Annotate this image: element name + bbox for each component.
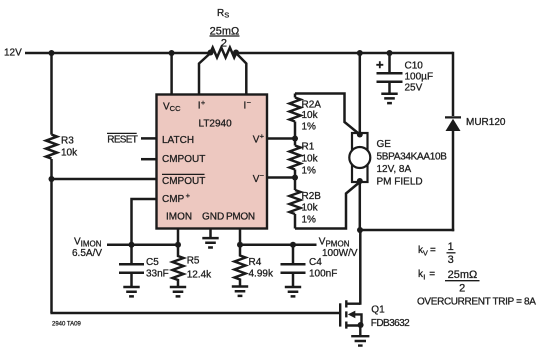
- svg-text:=: =: [430, 245, 436, 256]
- junction dot: PMON / R4: [237, 242, 243, 248]
- svg-text:100W/V: 100W/V: [322, 248, 358, 259]
- svg-text:+: +: [186, 191, 191, 200]
- transistor Q1 FDB3632: [340, 300, 361, 335]
- resistor R2A: [290, 98, 301, 122]
- svg-text:PMON: PMON: [226, 212, 255, 223]
- svg-text:PM FIELD: PM FIELD: [377, 177, 423, 188]
- wire: CMP+ down to IMON line: [132, 199, 158, 245]
- junction dot: V+ string: [292, 136, 298, 142]
- wire: V+ pin to string: [266, 137, 295, 140]
- svg-text:=: =: [429, 269, 435, 280]
- wire: V- pin to string: [266, 176, 295, 179]
- ground (R5): [170, 287, 186, 296]
- wire: CMPOUT stub: [141, 158, 157, 161]
- resistor R2B: [290, 190, 301, 214]
- wire: VPMON horizontal line: [240, 243, 317, 246]
- wire: C10 branch from rail: [388, 53, 391, 72]
- svg-text:GE: GE: [377, 139, 392, 150]
- capacitor C5: [119, 245, 144, 286]
- wire: diode anode down to drain node: [452, 130, 455, 231]
- resistor R4: [235, 245, 246, 286]
- wire: motor branch from rail: [359, 53, 362, 134]
- wire: string top to motor top: [295, 94, 360, 135]
- transistor Q1 body arrow: [348, 311, 356, 319]
- ground (C10): [381, 94, 397, 103]
- svg-text:1%: 1%: [302, 215, 317, 226]
- svg-text:100nF: 100nF: [309, 269, 337, 280]
- svg-text:5BPA34KAA10B: 5BPA34KAA10B: [377, 152, 448, 163]
- ground (R4): [232, 287, 248, 296]
- svg-text:MUR120: MUR120: [466, 117, 506, 128]
- diode MUR120: [445, 116, 461, 131]
- ground (IC GND pin): [202, 238, 218, 247]
- svg-text:−: −: [260, 171, 265, 180]
- capacitor C10: [377, 73, 403, 92]
- ground (C4): [285, 287, 301, 296]
- svg-text:6.5A/V: 6.5A/V: [72, 248, 102, 259]
- svg-text:R2A: R2A: [302, 99, 322, 110]
- svg-text:1%: 1%: [302, 122, 317, 133]
- wire: GND pin down: [209, 228, 212, 237]
- junction dot: C4: [290, 242, 296, 248]
- svg-text:10k: 10k: [302, 154, 319, 165]
- wire: PMON pin down: [239, 228, 242, 245]
- svg-text:CMPOUT: CMPOUT: [162, 154, 205, 165]
- wire: RS right to I- pin: [236, 53, 246, 95]
- IC U1 LT2940 body: [157, 95, 268, 229]
- junction dot: VCC: [169, 50, 175, 56]
- svg-text:C10: C10: [405, 61, 424, 72]
- capacitor C4: [281, 245, 306, 286]
- wire: resistor string vertical: [294, 94, 297, 229]
- svg-text:33nF: 33nF: [146, 269, 169, 280]
- svg-text:4.99k: 4.99k: [249, 269, 274, 280]
- svg-text:R3: R3: [61, 136, 74, 147]
- svg-text:OVERCURRENT TRIP = 8A: OVERCURRENT TRIP = 8A: [417, 296, 536, 307]
- resistor R1: [290, 146, 301, 170]
- wire: CMPOUT-bar to left vertical: [52, 178, 158, 181]
- svg-text:12V, 8A: 12V, 8A: [377, 164, 412, 175]
- wire: IMON pin down: [177, 228, 180, 245]
- junction dot: motor top terminal: [357, 132, 363, 138]
- junction dot: CMPOUT-bar / R3: [49, 176, 55, 182]
- svg-text:R2B: R2B: [302, 191, 322, 202]
- svg-text:2: 2: [221, 38, 227, 50]
- junction dot: R3 top: [49, 50, 55, 56]
- svg-text:3: 3: [448, 254, 454, 266]
- wire: RS left to I+ pin: [199, 53, 211, 95]
- svg-text:CMPOUT: CMPOUT: [162, 176, 205, 187]
- wire: 12V top rail: [25, 52, 453, 55]
- svg-text:R5: R5: [187, 256, 200, 267]
- junction dot: RS left: [208, 50, 214, 56]
- junction dot: CMP+ / C5: [129, 242, 135, 248]
- svg-text:IMON: IMON: [166, 212, 192, 223]
- svg-text:LT2940: LT2940: [199, 119, 233, 130]
- svg-text:10k: 10k: [302, 202, 319, 213]
- svg-text:FDB3632: FDB3632: [371, 318, 410, 329]
- svg-text:12.4k: 12.4k: [187, 269, 212, 280]
- junction dot: IMON / R5: [175, 242, 181, 248]
- resistor RS: [211, 48, 237, 58]
- ground (C5): [123, 287, 139, 296]
- svg-text:1: 1: [448, 241, 454, 253]
- svg-text:CMP: CMP: [162, 194, 185, 205]
- svg-text:VIMON: VIMON: [74, 237, 102, 249]
- svg-text:2: 2: [459, 283, 465, 295]
- svg-text:Q1: Q1: [371, 305, 385, 316]
- wire: bottom rail to Q1 gate: [50, 312, 340, 315]
- svg-text:1%: 1%: [302, 166, 317, 177]
- ground (Q1 source): [351, 336, 369, 345]
- junction dot: RS right: [233, 50, 239, 56]
- motor M1 circle: [349, 147, 370, 168]
- svg-text:+: +: [260, 132, 265, 141]
- svg-text:R1: R1: [302, 141, 315, 152]
- svg-text:25V: 25V: [405, 83, 423, 94]
- svg-text:V: V: [423, 248, 428, 257]
- svg-text:RESET: RESET: [107, 134, 137, 145]
- wire: left vertical (12V to R3 to bottom): [50, 53, 53, 313]
- wire: string bottom to motor bottom: [295, 182, 360, 229]
- motor M1 frame: [352, 133, 368, 182]
- wire: drain node horizontal: [360, 229, 454, 232]
- wire: rail right end down to diode: [452, 52, 455, 116]
- svg-text:I: I: [423, 273, 425, 282]
- svg-text:−: −: [247, 98, 252, 107]
- svg-text:10k: 10k: [302, 110, 319, 121]
- wire: VIMON horizontal line: [107, 243, 178, 246]
- svg-text:R4: R4: [249, 257, 262, 268]
- wire: RESET to LATCH pin: [141, 137, 157, 140]
- svg-text:C5: C5: [146, 257, 159, 268]
- svg-text:C4: C4: [309, 257, 322, 268]
- svg-text:RS: RS: [217, 8, 229, 20]
- junction dot: motor bottom terminal: [357, 178, 363, 184]
- label C10 plus: [376, 61, 383, 68]
- junction dot: C10 branch: [387, 50, 393, 56]
- wire: VCC pin to rail: [170, 53, 173, 95]
- wire: drain node down to Q1 drain: [359, 230, 362, 305]
- svg-text:+: +: [201, 98, 206, 107]
- wire: motor bottom to drain node: [359, 181, 362, 230]
- svg-text:VPMON: VPMON: [319, 237, 350, 249]
- resistor R3: [46, 135, 57, 159]
- svg-text:2940 TA09: 2940 TA09: [52, 321, 81, 327]
- junction dot: drain node: [357, 227, 363, 233]
- svg-text:GND: GND: [202, 212, 224, 223]
- svg-text:LATCH: LATCH: [162, 135, 194, 146]
- svg-text:10k: 10k: [61, 148, 78, 159]
- junction dot: Q1 source/body: [358, 322, 364, 328]
- junction dot: motor branch: [357, 50, 363, 56]
- junction dot: V- string: [292, 175, 298, 181]
- resistor R5: [173, 245, 184, 286]
- svg-text:25mΩ: 25mΩ: [448, 269, 478, 281]
- svg-text:12V: 12V: [4, 48, 22, 59]
- svg-text:100µF: 100µF: [405, 72, 434, 83]
